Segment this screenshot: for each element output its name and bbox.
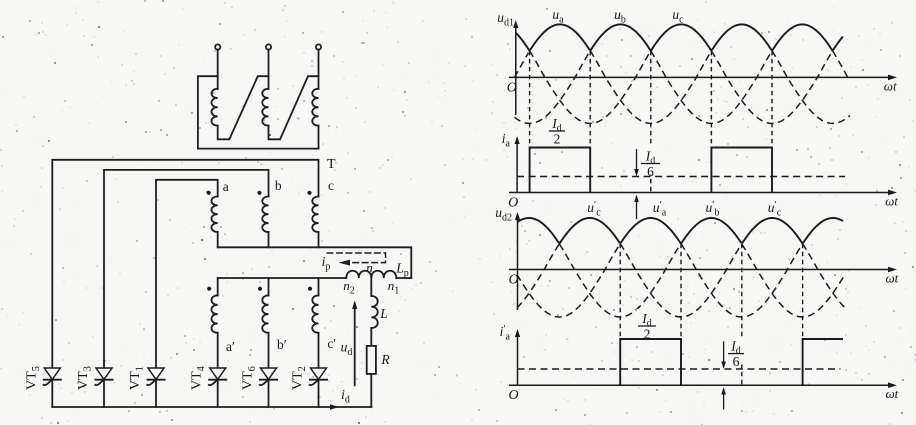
svg-text:2: 2 (554, 132, 561, 147)
svg-text:c′: c′ (327, 336, 336, 351)
svg-text:a: a (223, 179, 229, 194)
svg-text:a′: a′ (226, 339, 235, 354)
svg-text:O: O (507, 80, 517, 95)
svg-text:n: n (366, 260, 373, 275)
svg-text:R: R (380, 352, 390, 367)
svg-text:ωt: ωt (886, 271, 899, 286)
svg-text:ωt: ωt (884, 78, 897, 93)
svg-text:6: 6 (733, 354, 740, 369)
svg-text:6: 6 (647, 164, 654, 179)
svg-text:ωt: ωt (886, 386, 899, 401)
svg-text:T: T (327, 157, 336, 172)
svg-text:O: O (509, 388, 519, 403)
svg-text:ωt: ωt (885, 194, 898, 209)
svg-text:b′: b′ (277, 337, 287, 352)
svg-text:O: O (509, 273, 519, 288)
svg-text:L: L (379, 306, 388, 321)
svg-text:2: 2 (644, 327, 651, 342)
svg-text:b: b (275, 178, 282, 193)
svg-text:O: O (508, 196, 518, 211)
svg-text:c: c (328, 178, 334, 193)
